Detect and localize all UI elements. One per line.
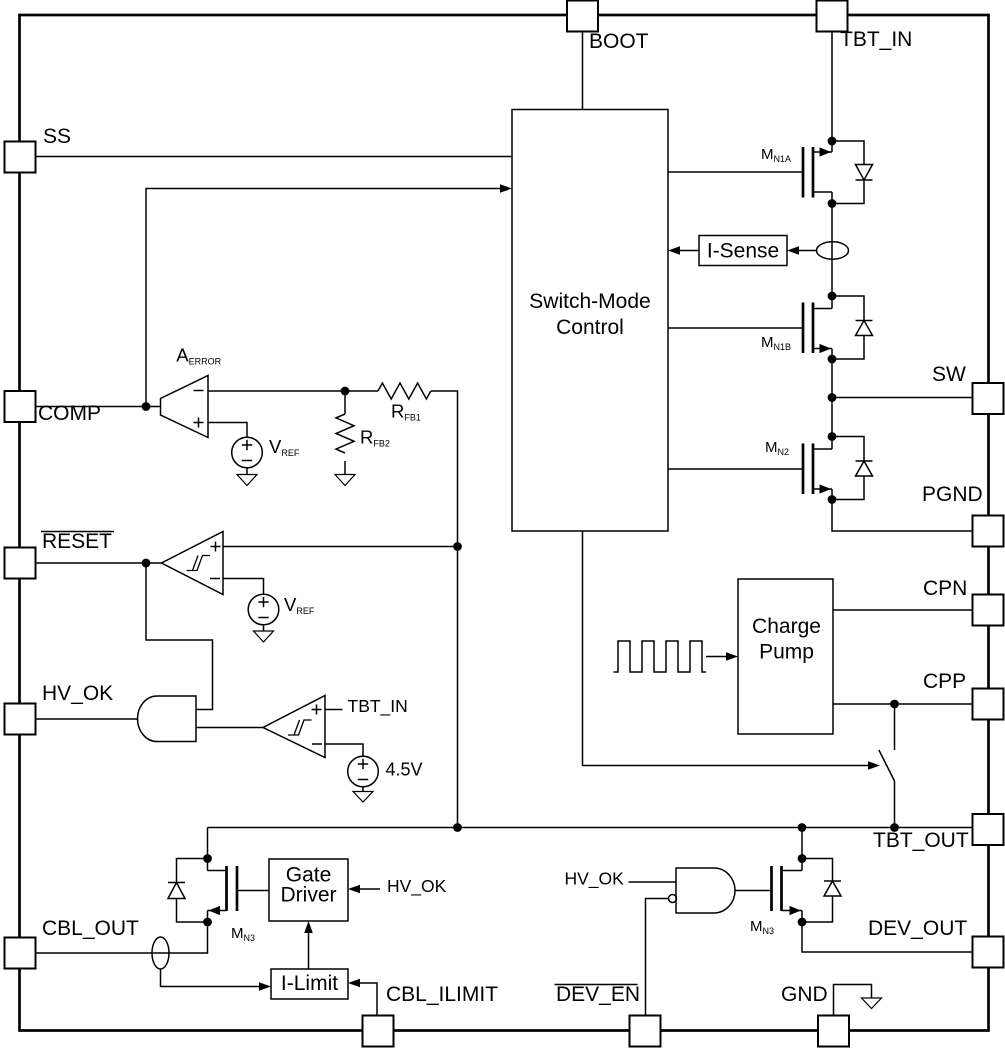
pin COMP xyxy=(5,391,102,425)
svg-text:RFB2: RFB2 xyxy=(360,427,390,449)
wire NAND output to M_N3 (right) gate xyxy=(735,890,772,892)
wire switch to TBT_OUT rail xyxy=(894,781,896,828)
ground below V_REF (error amp) xyxy=(237,468,257,486)
body diode of M_N2 xyxy=(832,437,873,500)
wire M_N1A source to M_N1B drain (through sense ellipse) xyxy=(831,204,833,297)
wire CPP node to switch contact xyxy=(894,704,896,750)
wire HV_OK to Gate Driver (arrow) xyxy=(348,876,447,897)
svg-text:SS: SS xyxy=(43,125,71,148)
node rail to switch S1 xyxy=(890,823,899,832)
wire comparator inverting input to 4.5V source xyxy=(325,744,363,756)
comparator U2 (RESET, hysteresis, output on left) xyxy=(162,532,224,595)
node rail to M_N3 (right) xyxy=(798,823,807,832)
wire sense ellipse to I-Limit (arrow) xyxy=(161,969,272,991)
body diode of M_N3 (left) xyxy=(168,859,208,923)
pin DEV_OUT xyxy=(868,917,1004,968)
voltage source V_REF (error amp) xyxy=(232,436,300,468)
pin SS xyxy=(5,125,72,173)
svg-text:AERROR: AERROR xyxy=(176,345,221,367)
node M_N3 (right) source xyxy=(798,918,807,927)
svg-text:Switch-Mode: Switch-Mode xyxy=(529,290,650,313)
svg-text:MN1A: MN1A xyxy=(761,146,791,164)
inverter bubble on DEV_EN input xyxy=(669,895,677,903)
wire M_N3 (right) source to DEV_OUT pin xyxy=(802,922,973,952)
current sense probe ellipse (CBL_OUT) xyxy=(152,937,169,969)
node M_N2 source xyxy=(828,495,837,504)
wire TBT_OUT rail xyxy=(208,827,974,829)
wire R_FB1 to high-side sense line xyxy=(431,391,458,547)
wire Charge Pump to CPN pin xyxy=(833,609,973,611)
ground below 4.5V source xyxy=(353,787,373,802)
wire A_ERROR inverting input to feedback node xyxy=(208,390,378,392)
switch S1 blade (open) xyxy=(879,750,895,781)
block U1 Switch-Mode Control xyxy=(512,110,668,532)
svg-text:VREF: VREF xyxy=(269,436,300,458)
pin TBT_OUT xyxy=(873,814,1004,852)
op-amp A_ERROR (error amplifier, output on left) xyxy=(161,345,222,438)
transistor M_N2 xyxy=(765,437,832,500)
svg-text:COMP: COMP xyxy=(38,402,101,425)
block I-Limit xyxy=(271,969,348,999)
pin CPP xyxy=(923,670,1004,720)
svg-text:HV_OK: HV_OK xyxy=(42,682,113,705)
svg-text:BOOT: BOOT xyxy=(589,30,649,53)
ground symbol (GND pin) xyxy=(862,998,882,1009)
svg-text:DEV_OUT: DEV_OUT xyxy=(868,917,967,940)
pin DEV_EN (active low) xyxy=(555,983,661,1047)
voltage source V_REF (RESET comparator) xyxy=(248,594,315,625)
pin GND xyxy=(781,983,849,1047)
wire I-Sense to Switch-Mode Control (arrow) xyxy=(668,246,699,255)
block I-Sense xyxy=(699,236,787,266)
wire Charge Pump to CPP pin xyxy=(833,703,973,705)
wire gate drive to M_N2 xyxy=(668,468,803,470)
wire RESET comparator inverting input to V_REF xyxy=(223,579,264,595)
pin TBT_IN xyxy=(817,1,913,52)
node RESET junction xyxy=(142,559,151,568)
wire current-sense ellipse to I-Sense (arrow) xyxy=(787,246,817,255)
wire RESET node to AND gate top input xyxy=(146,563,213,710)
pin RESET (active low) xyxy=(5,530,115,579)
node M_N3 (left) drain xyxy=(203,854,212,863)
svg-text:Charge: Charge xyxy=(752,615,821,638)
wire BOOT to Switch-Mode Control xyxy=(582,31,584,110)
current sense probe ellipse xyxy=(817,242,849,259)
wire I-Limit to Gate Driver (arrow up) xyxy=(304,921,313,969)
svg-text:I-Limit: I-Limit xyxy=(281,972,338,995)
resistor R_FB2 xyxy=(336,391,390,475)
svg-text:DEV_EN: DEV_EN xyxy=(556,983,640,1006)
node M_N1A drain xyxy=(828,137,837,146)
wire A_ERROR non-inverting input to V_REF xyxy=(208,423,247,438)
wire gate drive to M_N1B xyxy=(668,327,803,329)
svg-text:I-Sense: I-Sense xyxy=(707,240,779,263)
voltage source 4.5V xyxy=(348,756,423,787)
svg-text:RESET: RESET xyxy=(42,530,112,553)
wire gate drive to M_N1A xyxy=(668,171,803,173)
wire M_N3 (left) source to CBL_OUT pin (through sense ellipse) xyxy=(35,922,208,953)
pin SW xyxy=(932,363,1004,414)
svg-text:CBL_OUT: CBL_OUT xyxy=(42,917,139,940)
svg-text:CBL_ILIMIT: CBL_ILIMIT xyxy=(386,983,498,1006)
svg-text:MN3: MN3 xyxy=(750,918,774,936)
wire SW node to SW pin xyxy=(832,397,973,399)
wire rail corner down to M_N3 (left) drain xyxy=(207,828,209,859)
node divider sense junction xyxy=(453,542,462,551)
AND gate U3 (HV_OK, output on left) xyxy=(138,696,197,742)
wire CBL_ILIMIT pin to I-Limit (arrow) xyxy=(348,979,377,1016)
transistor M_N3 (right) xyxy=(750,859,802,937)
pin BOOT xyxy=(567,1,649,54)
wire rail node down to M_N3 (right) drain xyxy=(801,828,803,859)
clock waveform symbol xyxy=(614,641,707,672)
node M_N1A source xyxy=(828,199,837,208)
svg-text:GND: GND xyxy=(781,983,828,1006)
node M_N1B source xyxy=(828,355,837,364)
svg-text:CPN: CPN xyxy=(923,577,967,600)
node M_N3 (left) source xyxy=(203,918,212,927)
wire M_N2 source to PGND pin xyxy=(832,500,973,532)
resistor R_FB1 xyxy=(378,383,431,423)
node M_N1B drain xyxy=(828,292,837,301)
NAND gate U5 (DEV enable) xyxy=(676,868,735,913)
wire comparator non-inverting input stub TBT_IN xyxy=(325,696,408,717)
svg-text:HV_OK: HV_OK xyxy=(387,876,447,897)
ground below V_REF (RESET comparator) xyxy=(254,625,274,642)
svg-text:VREF: VREF xyxy=(284,594,315,616)
wire Switch-Mode Control to switch S1 (control, arrow) xyxy=(583,531,881,770)
wire TBT_IN pin to M_N1A drain xyxy=(831,31,833,141)
svg-text:MN2: MN2 xyxy=(765,439,789,457)
ground below R_FB2 xyxy=(335,475,355,486)
transistor M_N1A xyxy=(761,141,832,204)
svg-text:Pump: Pump xyxy=(759,641,814,664)
node CPP junction xyxy=(890,700,899,709)
wire clock to Charge Pump (arrow) xyxy=(706,652,738,661)
wire COMP pin to error amp output node xyxy=(35,406,161,408)
pin CBL_OUT xyxy=(5,917,140,969)
wire DEV_EN pin to NAND gate bottom input xyxy=(646,899,669,1017)
wire RESET comparator non-inverting input to divider sense xyxy=(223,546,458,548)
wire SS to Switch-Mode Control xyxy=(35,156,512,158)
node COMP junction xyxy=(142,402,151,411)
pin CPN xyxy=(923,577,1004,626)
pin PGND xyxy=(922,483,1004,547)
svg-text:MN3: MN3 xyxy=(231,925,255,943)
wire HV_OK pin to AND gate output xyxy=(35,718,138,720)
wire M_N3 (left) gate to Gate Driver xyxy=(237,890,269,892)
body diode of M_N1B xyxy=(832,296,873,359)
svg-text:Driver: Driver xyxy=(281,884,337,907)
comparator U4 (TBT_IN UVLO, hysteresis, output on left) xyxy=(263,696,325,758)
wire HV_OK to NAND gate top input xyxy=(565,869,677,890)
wire divider sense down to TBT_OUT rail xyxy=(457,547,459,828)
svg-text:SW: SW xyxy=(932,363,966,386)
svg-text:4.5V: 4.5V xyxy=(386,760,423,780)
svg-text:HV_OK: HV_OK xyxy=(565,869,625,890)
block Gate Driver xyxy=(269,859,348,921)
svg-text:TBT_IN: TBT_IN xyxy=(348,696,408,717)
svg-text:MN1B: MN1B xyxy=(761,334,791,352)
body diode of M_N3 (right) xyxy=(802,859,841,923)
node SW junction xyxy=(828,393,837,402)
wire M_N1B source to M_N2 drain xyxy=(831,359,833,437)
node M_N3 (right) drain xyxy=(798,854,807,863)
svg-text:CPP: CPP xyxy=(923,670,966,693)
transistor M_N1B xyxy=(761,296,832,359)
node rail to divider sense xyxy=(453,823,462,832)
wire TBT_IN comparator output to AND gate bottom input xyxy=(196,727,263,729)
svg-text:RFB1: RFB1 xyxy=(391,401,421,423)
pin HV_OK xyxy=(5,682,114,735)
svg-text:PGND: PGND xyxy=(922,483,983,506)
svg-text:TBT_IN: TBT_IN xyxy=(840,28,912,51)
body diode of M_N1A xyxy=(832,141,873,204)
node feedback divider junction xyxy=(341,387,350,396)
wire GND pin to ground symbol xyxy=(834,985,872,1017)
svg-text:TBT_OUT: TBT_OUT xyxy=(873,829,969,852)
wire RESET pin to comparator xyxy=(35,562,162,564)
block Charge Pump xyxy=(738,579,833,734)
wire COMP node feedback to Switch-Mode Control (arrow) xyxy=(146,184,512,406)
node M_N2 drain xyxy=(828,432,837,441)
transistor M_N3 (left, mirrored) xyxy=(208,859,256,944)
pin CBL_ILIMIT xyxy=(363,983,499,1047)
svg-text:Control: Control xyxy=(556,316,624,339)
